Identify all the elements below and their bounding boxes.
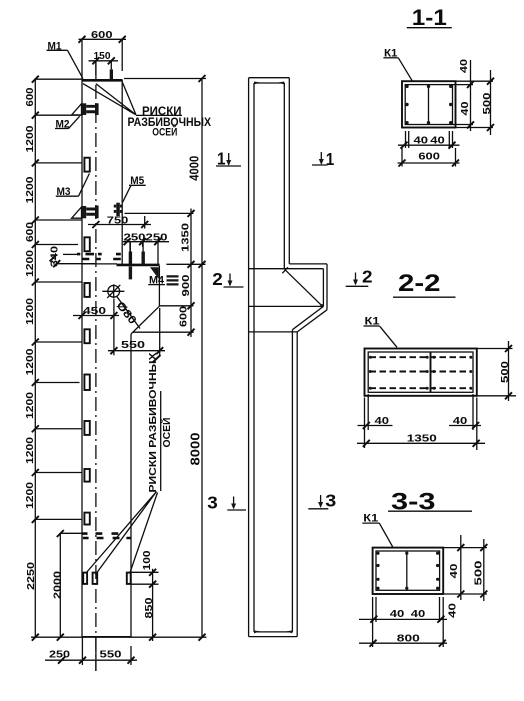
corbel outer chamfer: [297, 310, 327, 332]
corbel top ext to left: [57, 263, 95, 265]
svg-text:550: 550: [100, 649, 122, 661]
svg-text:40: 40: [375, 415, 390, 427]
1-1 dim 600: [398, 148, 460, 167]
column bottom edge: [82, 636, 131, 638]
1-1 dim 500 line: [490, 70, 492, 135]
section 3-3 inner: [376, 551, 440, 590]
2-2 dim 1350: [357, 442, 485, 444]
2000 ticks: [57, 530, 64, 641]
1-1 right dim 40/40 line: [453, 60, 494, 131]
bracket M2: weld triangle: [72, 104, 82, 115]
svg-text:450: 450: [83, 305, 106, 317]
corbel right edge: [158, 266, 160, 306]
mid column right inner upper: [283, 83, 285, 269]
column top edge: [82, 79, 122, 82]
svg-text:1200: 1200: [24, 125, 36, 152]
section 3-3 outer: [373, 548, 444, 594]
svg-text:550: 550: [121, 339, 145, 351]
bottom baseline: [31, 636, 206, 638]
hole cross: [102, 284, 124, 298]
svg-text:250: 250: [49, 649, 70, 661]
svg-text:40: 40: [458, 59, 470, 73]
plate 7: [84, 469, 89, 482]
plate 4: [84, 329, 89, 343]
bracket M5: bar: [116, 203, 120, 216]
svg-text:340: 340: [49, 246, 61, 267]
svg-text:600: 600: [178, 306, 190, 327]
plate 8: [84, 513, 89, 525]
3-3 dim 800: [359, 622, 447, 647]
anchor bolt 1 lower stub M4: [129, 266, 132, 279]
dim 250 250: line: [123, 242, 169, 264]
plate 2: [84, 237, 89, 251]
svg-text:1200: 1200: [24, 176, 36, 203]
mid column bottom inner end blobs: [254, 630, 292, 633]
section 1-1 middle bar: [428, 85, 430, 125]
svg-text:500: 500: [481, 92, 493, 114]
3-3 bottom dim 40 40: [359, 597, 447, 647]
bottom mark plate mid: [93, 573, 98, 584]
bracket M3: end bar: [95, 206, 99, 219]
M1 underline: [47, 49, 68, 51]
svg-text:900: 900: [180, 274, 192, 296]
hole centre slash ticks: [107, 285, 120, 298]
mid column inner left edge: [253, 83, 255, 632]
M1 leader: [68, 50, 84, 78]
vertical note underline: [160, 391, 162, 491]
svg-text:250250: 250250: [124, 232, 168, 244]
section 2-2 outer: [365, 349, 477, 396]
svg-text:2000: 2000: [52, 571, 64, 599]
svg-text:ОСЕЙ: ОСЕЙ: [160, 418, 173, 448]
svg-text:40: 40: [447, 603, 459, 618]
svg-text:2-2: 2-2: [398, 270, 441, 297]
chain ticks: [32, 76, 39, 641]
svg-text:600: 600: [24, 222, 36, 242]
bracket M2: end bar: [95, 103, 99, 115]
column left edge: [81, 80, 83, 638]
riska dashes bottom row1: [82, 532, 119, 535]
svg-text:РИСКИ РАЗБИВОЧНЫХ: РИСКИ РАЗБИВОЧНЫХ: [148, 352, 159, 492]
2-2 dim 40 left: [358, 394, 393, 448]
svg-text:40: 40: [459, 101, 471, 115]
column right edge lower: [130, 334, 132, 637]
svg-text:40: 40: [414, 134, 429, 146]
right sections: [357, 5, 516, 647]
mid column top inner: [254, 82, 284, 84]
dim 150 ticks: [92, 57, 114, 64]
section 2-2 middle bar: [430, 352, 432, 392]
embedded plate row (M3 type): [84, 158, 89, 525]
inner chain ext 332: [133, 331, 194, 333]
plate 5: [84, 375, 89, 391]
column right edge upper: [121, 80, 123, 265]
M2 leader: [69, 116, 80, 128]
svg-text:1200: 1200: [24, 437, 36, 464]
stiffener top tick: [282, 267, 288, 273]
M4 underline: [148, 284, 165, 286]
svg-text:3: 3: [325, 491, 336, 511]
mid column right outer lower: [296, 332, 298, 637]
2-2 dim 500: [477, 341, 516, 401]
plate 3: [84, 283, 89, 297]
plate 1: [84, 158, 89, 172]
svg-text:4000: 4000: [188, 156, 202, 181]
bottom dim ticks: [58, 657, 135, 664]
anchor bolt 1: [129, 242, 131, 265]
M3 leader: [79, 174, 90, 197]
mid column bottom outer: [249, 636, 298, 638]
plate 6: [84, 421, 89, 435]
svg-text:3: 3: [207, 493, 218, 513]
corbel right inner: [322, 269, 324, 307]
dim 250250 ticks: [124, 238, 162, 245]
1-1 bottom dims: [398, 131, 460, 148]
corbel step inner full: [249, 268, 324, 270]
section 1-1 outer: [402, 81, 456, 127]
hole leader: [117, 296, 141, 329]
inner chain ext 264: [166, 263, 205, 265]
section 1-1 rebar dots: [405, 85, 452, 125]
chain line: [34, 79, 36, 638]
bracket M2: bolt bars: [86, 105, 95, 113]
mid column top inner line end blobs: [254, 82, 284, 85]
mid column right inner lower: [291, 330, 293, 632]
svg-text:500: 500: [499, 361, 511, 383]
bottom dim line 250/550: [45, 659, 137, 661]
section 2-2 dots: [369, 356, 473, 390]
svg-text:1350: 1350: [407, 433, 437, 445]
big chain top extension: [124, 78, 206, 80]
bottom extension stubs: [82, 637, 131, 671]
2000 dim line: [60, 533, 81, 637]
svg-text:8000: 8000: [189, 432, 203, 465]
weld fill under corbel plate end: [150, 267, 159, 279]
riska 340 helper line: [63, 253, 77, 255]
column axis line: [95, 61, 97, 671]
section 3-3 middle bar: [406, 551, 408, 590]
corbel inner chamfer: [292, 306, 323, 329]
bracket M3: plate: [82, 206, 86, 218]
section 2-2 inner: [368, 352, 473, 392]
2-2 dim 40 right: [449, 394, 481, 450]
corbel mid horizontal: [249, 305, 322, 307]
svg-text:40: 40: [390, 608, 405, 620]
inner chain line 1350/900/600: [190, 209, 192, 338]
svg-text:ОСЕЙ: ОСЕЙ: [152, 125, 177, 138]
dim 750 ticks: [92, 221, 148, 228]
middle column side view: [124, 75, 373, 641]
section 3-3 dots: [376, 552, 439, 590]
extension lines: [35, 79, 82, 519]
dim 450: line: [73, 299, 119, 355]
svg-text:750: 750: [107, 214, 129, 226]
dim 750: line: [88, 216, 151, 229]
svg-text:40: 40: [411, 608, 426, 620]
big chain line 4000/8000: [201, 79, 203, 639]
leaders to axis-mark note: [83, 82, 136, 115]
svg-text:600: 600: [24, 87, 36, 106]
svg-text:1200: 1200: [24, 392, 36, 419]
dim 550 corbel: line: [108, 308, 165, 355]
riska dashes at corbel level row2: [82, 258, 121, 261]
mid column outer left edge: [248, 78, 250, 637]
svg-text:1: 1: [326, 149, 335, 169]
corbel bottom horizontal: [249, 331, 297, 333]
top embedded mark T-bar: [110, 69, 113, 79]
dim 550 ticks: [110, 347, 163, 354]
section 2-2 dashed rebar rows: [370, 357, 473, 388]
svg-text:100: 100: [141, 550, 153, 570]
svg-text:600: 600: [418, 151, 440, 163]
big chain ticks: [199, 75, 206, 641]
riska dashes bottom row2: [83, 537, 131, 540]
svg-text:2: 2: [362, 267, 373, 287]
svg-text:40: 40: [430, 134, 445, 146]
bracket M5: stubs: [114, 205, 123, 213]
bracket M3: bolt bars: [86, 208, 95, 216]
svg-text:600: 600: [91, 29, 113, 41]
svg-text:1200: 1200: [24, 482, 36, 509]
svg-text:1350: 1350: [179, 223, 191, 252]
M4 thread bars: [167, 275, 179, 285]
svg-text:800: 800: [397, 632, 420, 644]
svg-text:40: 40: [453, 415, 468, 427]
svg-text:1200: 1200: [24, 348, 36, 375]
leaders to bottom marks: [86, 492, 158, 575]
corbel top (left view): [82, 263, 117, 265]
corbel right outer: [326, 264, 328, 310]
bracket M2: plate: [82, 103, 86, 115]
anchor bolt 2: [142, 242, 144, 265]
mid column top outer: [249, 77, 290, 79]
3-3 right dim 40: [443, 535, 487, 600]
M2 underline: [55, 128, 69, 130]
inner chain ticks: [188, 210, 195, 336]
corbel sloped underside: [131, 306, 159, 334]
3-3 right dim 500: [483, 539, 485, 601]
extra tick below: [153, 355, 161, 363]
svg-text:1200: 1200: [24, 298, 36, 325]
corbel diagonal stiffener: [285, 269, 323, 306]
note underline: [136, 114, 182, 116]
dim 100: stubs and ticks: [131, 569, 159, 641]
stiffener end dot: [320, 304, 324, 308]
corbel step outer: [289, 263, 327, 265]
svg-text:40: 40: [448, 563, 460, 578]
svg-text:2250: 2250: [25, 562, 37, 590]
bottom mark plate left: [83, 573, 87, 584]
svg-text:2: 2: [212, 269, 223, 289]
svg-text:150: 150: [94, 50, 111, 62]
hole circle: [108, 285, 120, 297]
inner chain ext 305.8: [160, 305, 194, 307]
M3 underline: [56, 195, 79, 197]
mid column right outer upper: [288, 78, 290, 264]
left column elevation: [47, 29, 212, 671]
bracket M3: weld triangle: [72, 207, 82, 218]
dim 450 ticks: [79, 312, 118, 319]
M5 leader: [123, 185, 131, 202]
section 1-1 inner: [405, 85, 452, 125]
M5 underline: [129, 184, 146, 186]
inner chain ext 213: [125, 212, 194, 214]
svg-text:1200: 1200: [24, 250, 36, 277]
dim 340 ticks: [50, 254, 61, 267]
left dimension chain line: [24, 76, 206, 671]
mid column bottom inner: [254, 631, 292, 633]
bottom mark plate right: [127, 573, 131, 584]
dim 600 top: line: [79, 39, 127, 79]
dim 150: line: [89, 61, 119, 79]
corbel top plate thick: [117, 264, 160, 267]
svg-text:500: 500: [473, 560, 485, 585]
svg-text:1-1: 1-1: [412, 5, 447, 30]
dim 600 ticks: [79, 36, 126, 43]
svg-text:850: 850: [143, 597, 155, 618]
riska dashes at corbel level row1: [77, 253, 121, 256]
